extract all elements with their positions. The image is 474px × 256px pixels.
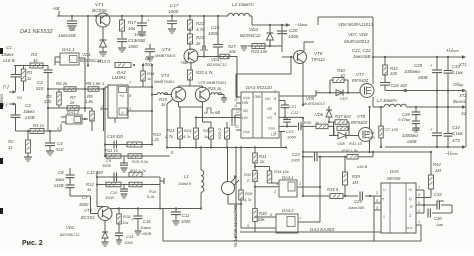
svg-text:3: 3 — [276, 182, 278, 186]
svg-text:L2 10мкГн: L2 10мкГн — [232, 2, 254, 7]
svg-text:R: R — [410, 205, 413, 209]
svg-text:8,2к: 8,2к — [147, 194, 156, 199]
svg-text:1: 1 — [418, 220, 420, 224]
svg-text:R35 0: R35 0 — [327, 187, 339, 192]
svg-text:10к: 10к — [122, 220, 129, 225]
svg-text:R33 10к: R33 10к — [251, 49, 268, 54]
svg-text:VT5 MMBT5401: VT5 MMBT5401 — [198, 80, 226, 85]
svg-text:Q: Q — [409, 197, 412, 201]
svg-text:1М: 1М — [435, 168, 441, 173]
svg-text:R38 1,8к: R38 1,8к — [342, 148, 359, 153]
svg-text:C21: C21 — [289, 104, 296, 109]
svg-text:6В: 6В — [215, 110, 220, 115]
svg-text:VB: VB — [267, 107, 272, 111]
svg-text:DA4 KA393: DA4 KA393 — [310, 227, 334, 232]
svg-text:R18: R18 — [123, 214, 131, 219]
svg-text:VD8: VD8 — [337, 141, 346, 146]
svg-text:330: 330 — [44, 99, 52, 104]
svg-text:VT2: VT2 — [84, 208, 93, 213]
svg-text:+U: +U — [120, 94, 125, 98]
svg-text:C21, C22: C21, C22 — [352, 48, 371, 53]
svg-text:+6В: +6В — [52, 6, 60, 11]
svg-text:10к: 10к — [229, 49, 237, 54]
svg-text:BCX53: BCX53 — [81, 215, 95, 220]
svg-text:DA1 NE5532: DA1 NE5532 — [20, 29, 54, 35]
svg-text:2: 2 — [273, 190, 276, 194]
svg-text:1000: 1000 — [287, 135, 297, 140]
svg-text:VDD: VDD — [243, 96, 251, 100]
svg-text:6: 6 — [270, 213, 272, 217]
svg-text:C34: C34 — [452, 125, 460, 130]
svg-text:510: 510 — [36, 86, 44, 91]
svg-text:Com: Com — [268, 127, 275, 131]
svg-text:C11: C11 — [182, 213, 189, 218]
svg-text:C16: C16 — [143, 219, 151, 224]
svg-text:R28: R28 — [245, 191, 253, 196]
svg-text:R6 2к: R6 2к — [56, 81, 68, 86]
svg-text:C27 100: C27 100 — [383, 127, 399, 132]
svg-text:+: + — [430, 63, 433, 68]
svg-text:2к: 2к — [69, 100, 75, 105]
svg-text:2к: 2к — [195, 41, 201, 46]
svg-text:2: 2 — [375, 191, 378, 195]
svg-text:BZX55C12: BZX55C12 — [60, 232, 80, 237]
svg-text:1: 1 — [383, 215, 385, 219]
svg-text:R39: R39 — [352, 174, 360, 179]
svg-text:C25: C25 — [354, 199, 362, 204]
svg-text:MMBT5401: MMBT5401 — [155, 53, 176, 58]
svg-text:3600: 3600 — [102, 163, 112, 168]
svg-text:U: U — [121, 111, 124, 115]
svg-text:3600: 3600 — [79, 202, 89, 207]
svg-text:VT7: VT7 — [356, 72, 365, 77]
svg-text:VT6: VT6 — [314, 51, 323, 56]
svg-text:1: 1 — [129, 107, 131, 111]
svg-text:VT4: VT4 — [162, 47, 171, 52]
svg-text:DA5: DA5 — [390, 169, 399, 174]
svg-text:VD7: VD7 — [340, 96, 349, 101]
svg-text:+: + — [147, 18, 150, 23]
svg-text:R3: R3 — [31, 52, 37, 57]
svg-text:VD1: VD1 — [82, 52, 91, 57]
svg-text:R25: R25 — [203, 128, 211, 133]
svg-text:VS: VS — [267, 116, 272, 120]
svg-text:R24: R24 — [184, 128, 192, 133]
svg-text:C2: C2 — [25, 103, 31, 108]
svg-text:ХТ3: ХТ3 — [451, 138, 460, 143]
svg-text:C3: C3 — [37, 80, 43, 85]
svg-text:C23: C23 — [286, 129, 294, 134]
svg-text:≡: ≡ — [382, 197, 384, 201]
svg-text:R36: R36 — [304, 120, 312, 125]
svg-text:4,7к: 4,7к — [165, 134, 174, 139]
svg-text:+U: +U — [408, 188, 413, 192]
svg-text:10к: 10к — [128, 26, 136, 31]
svg-text:R15 8,2к: R15 8,2к — [132, 159, 149, 164]
svg-text:1мкх16В: 1мкх16В — [353, 54, 371, 59]
svg-text:R11 1к: R11 1к — [105, 148, 119, 153]
svg-text:IRF540Z: IRF540Z — [352, 78, 369, 83]
svg-text:10мкх: 10мкх — [1, 52, 14, 57]
svg-text:2: 2 — [417, 209, 420, 213]
svg-text:х16 В: х16 В — [2, 58, 15, 63]
svg-text:1000: 1000 — [208, 31, 219, 36]
svg-text:1000: 1000 — [128, 44, 138, 49]
svg-text:4: 4 — [376, 206, 378, 210]
svg-text:5: 5 — [247, 224, 249, 228]
svg-text:1,8к: 1,8к — [85, 99, 94, 104]
svg-text:C4: C4 — [57, 141, 63, 146]
svg-text:10мкГн: 10мкГн — [178, 181, 192, 186]
svg-text:VT8: VT8 — [357, 114, 366, 119]
svg-text:C7: C7 — [82, 195, 88, 200]
svg-text:C26 100: C26 100 — [391, 83, 408, 88]
svg-text:R44: R44 — [433, 162, 441, 167]
svg-text:R17: R17 — [128, 20, 137, 25]
svg-text:VD2: VD2 — [66, 225, 75, 230]
svg-text:10: 10 — [234, 98, 238, 102]
svg-text:3600: 3600 — [105, 195, 115, 200]
svg-text:VT1: VT1 — [95, 2, 104, 8]
svg-text:1000: 1000 — [288, 34, 299, 39]
svg-text:0,1мк: 0,1мк — [452, 131, 464, 136]
svg-text:NE555: NE555 — [387, 176, 401, 181]
svg-text:C1: C1 — [6, 45, 12, 50]
svg-text:х16В: х16В — [53, 183, 64, 188]
svg-text:VT3: VT3 — [161, 73, 170, 78]
svg-text:C8: C8 — [58, 170, 64, 175]
svg-text:1: 1 — [299, 182, 301, 186]
svg-text:R22: R22 — [196, 21, 205, 26]
svg-text:MMBT5401: MMBT5401 — [154, 79, 174, 84]
svg-text:R37 820: R37 820 — [335, 114, 352, 119]
svg-text:4,7к: 4,7к — [244, 197, 253, 202]
svg-text:6: 6 — [418, 193, 420, 197]
svg-text:1000: 1000 — [181, 219, 191, 224]
svg-text:1к: 1к — [33, 58, 39, 63]
svg-text:R1: R1 — [27, 70, 32, 75]
svg-text:HO: HO — [265, 97, 271, 101]
svg-text:C33: C33 — [452, 64, 460, 69]
svg-text:R32: R32 — [244, 172, 252, 177]
svg-text:VD7, VD8: VD7, VD8 — [348, 32, 368, 37]
svg-text:L3 30мкГн: L3 30мкГн — [377, 98, 397, 103]
svg-text:1000: 1000 — [168, 9, 179, 14]
svg-text:+: + — [430, 127, 433, 132]
svg-text:х16 В: х16 В — [356, 164, 368, 169]
svg-text:R30: R30 — [259, 211, 267, 216]
svg-text:Рис. 2: Рис. 2 — [22, 240, 43, 247]
svg-text:1000: 1000 — [124, 240, 134, 245]
svg-text:C12 330: C12 330 — [87, 170, 104, 175]
svg-text:510: 510 — [56, 147, 64, 152]
svg-text:C30: C30 — [434, 216, 442, 221]
svg-text:10мкх: 10мкх — [134, 32, 147, 37]
svg-text:1мк: 1мк — [436, 222, 444, 227]
svg-text:5: 5 — [376, 199, 378, 203]
svg-text:BZX55C12: BZX55C12 — [207, 62, 227, 67]
svg-text:+6В: +6В — [180, 60, 188, 65]
svg-text:(+): (+) — [3, 84, 9, 89]
svg-text:1000мкх: 1000мкх — [402, 133, 419, 138]
svg-text:11: 11 — [234, 104, 238, 108]
svg-text:LIN: LIN — [242, 116, 248, 120]
svg-text:5: 5 — [418, 201, 420, 205]
svg-text:SD: SD — [243, 109, 248, 113]
svg-text:C22: C22 — [291, 110, 299, 115]
svg-text:DA4.1: DA4.1 — [282, 175, 294, 180]
svg-text:R20 4,7к: R20 4,7к — [196, 70, 214, 75]
svg-text:VSS: VSS — [243, 130, 250, 134]
svg-text:DA1.2: DA1.2 — [67, 110, 80, 115]
svg-text:IRF540Z: IRF540Z — [351, 120, 368, 125]
svg-text:1мкх16В: 1мкх16В — [348, 205, 364, 210]
svg-text:100: 100 — [390, 71, 398, 76]
svg-text:VD6 MURA21013: VD6 MURA21013 — [338, 22, 373, 27]
svg-text:R1: R1 — [17, 95, 22, 100]
svg-text:100: 100 — [368, 135, 375, 140]
svg-text:R29 0: R29 0 — [217, 128, 222, 139]
svg-text:х50В: х50В — [141, 231, 151, 236]
svg-text:C17: C17 — [170, 3, 179, 8]
svg-text:х50В: х50В — [134, 38, 145, 43]
svg-text:R21: R21 — [167, 128, 175, 133]
svg-text:C29: C29 — [414, 63, 423, 68]
svg-text:R23: R23 — [196, 35, 205, 40]
svg-text:C32: C32 — [434, 192, 442, 197]
svg-text:1,2к: 1,2к — [151, 137, 160, 142]
svg-text:1000мкх: 1000мкх — [404, 69, 421, 74]
svg-text:R12 1,2к: R12 1,2к — [130, 168, 147, 173]
svg-text:0,47мк: 0,47мк — [398, 117, 412, 122]
svg-text:1000: 1000 — [291, 158, 301, 163]
svg-text:10мкх: 10мкх — [23, 109, 36, 114]
svg-text:ПВХ: ПВХ — [254, 95, 262, 99]
svg-text:R2: R2 — [8, 139, 14, 144]
svg-text:х16В: х16В — [24, 115, 35, 120]
svg-text:0,1мк: 0,1мк — [452, 70, 464, 75]
svg-text:C5: C5 — [145, 56, 151, 61]
svg-text:R26 1к: R26 1к — [208, 86, 222, 91]
svg-text:DA1.1: DA1.1 — [62, 47, 75, 52]
svg-text:C24: C24 — [292, 152, 300, 157]
svg-text:1мк: 1мк — [437, 198, 445, 203]
svg-text:C15: C15 — [211, 25, 220, 30]
svg-text:1: 1 — [274, 131, 276, 135]
svg-text:х50В: х50В — [406, 139, 417, 144]
svg-text:VD6: VD6 — [315, 112, 324, 117]
svg-text:MURS26013: MURS26013 — [303, 102, 326, 106]
svg-text:10мкх: 10мкх — [140, 225, 152, 230]
svg-text:R13 0: R13 0 — [98, 59, 110, 64]
svg-text:13: 13 — [235, 125, 239, 129]
svg-text:VD5: VD5 — [306, 96, 315, 101]
svg-text:1мкх16В: 1мкх16В — [58, 33, 76, 38]
svg-text:1М: 1М — [352, 180, 358, 185]
svg-text:VD4: VD4 — [249, 27, 258, 32]
svg-text:R41 10: R41 10 — [349, 141, 363, 146]
svg-text:MURA20013: MURA20013 — [344, 39, 370, 44]
svg-text:DA4.2: DA4.2 — [282, 208, 294, 213]
svg-text:C14: C14 — [126, 234, 134, 239]
svg-text:Вход: Вход — [0, 94, 4, 104]
svg-text:х50В: х50В — [417, 75, 428, 80]
svg-text:4,7к: 4,7к — [183, 134, 192, 139]
svg-text:C19 330: C19 330 — [107, 134, 124, 139]
svg-text:R4 1к: R4 1к — [33, 123, 45, 128]
svg-text:C6: C6 — [69, 27, 75, 32]
svg-text:R34 10к: R34 10к — [274, 169, 290, 174]
svg-text:C20: C20 — [289, 28, 298, 33]
svg-text:LM393: LM393 — [112, 75, 126, 80]
svg-text:BZX55C12: BZX55C12 — [240, 33, 261, 38]
svg-text:68к: 68к — [258, 217, 266, 222]
svg-text:Выход: Выход — [453, 99, 467, 104]
svg-text:HIN: HIN — [242, 101, 249, 105]
svg-text:L1: L1 — [184, 174, 189, 179]
svg-text:Общ.: Общ. — [453, 82, 464, 87]
svg-text:12: 12 — [236, 110, 240, 114]
svg-text:C31: C31 — [412, 127, 421, 132]
svg-text:TIP112: TIP112 — [311, 57, 325, 62]
svg-text:DA3 IR2110: DA3 IR2110 — [246, 85, 272, 91]
svg-text:R8 1,8к: R8 1,8к — [86, 81, 101, 86]
svg-text:1мкх: 1мкх — [55, 177, 65, 182]
